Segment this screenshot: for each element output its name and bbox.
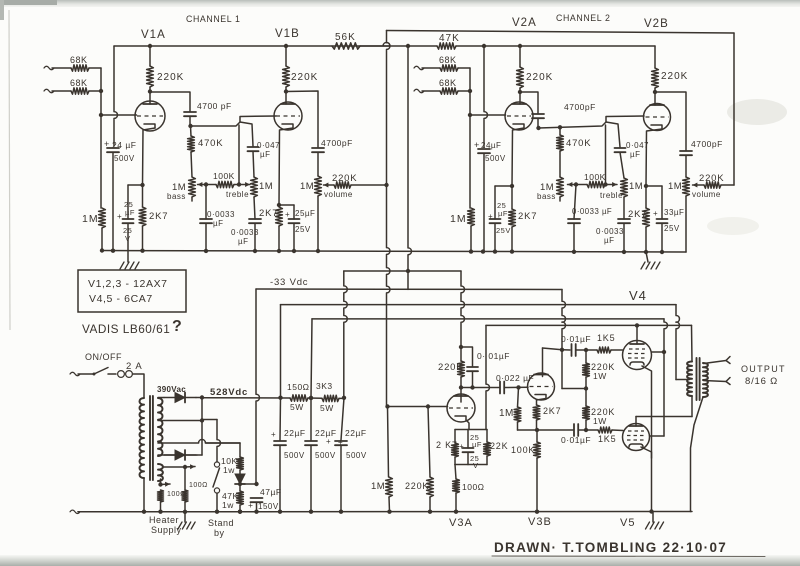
label 1M ch2 (450, 213, 467, 225)
wire bass pot stub (191, 197, 193, 201)
label 2K7 V2B (628, 209, 647, 220)
wire cap V5 to 1K5 (578, 429, 598, 431)
capacitor 22uF #1 (274, 441, 286, 445)
svg-text:5W: 5W (290, 402, 304, 412)
wire screen line down (663, 352, 665, 436)
wire HV tap3 lead (158, 440, 240, 443)
label V4 (629, 288, 647, 303)
transformer PT core (150, 396, 153, 480)
junction dot bus 25uF ch2 (493, 249, 497, 253)
svg-text:56K: 56K (335, 32, 356, 43)
svg-text:1M: 1M (82, 213, 99, 225)
wire junction to cap ch2 (574, 185, 576, 220)
wire right signal riser (733, 33, 735, 185)
label question mark (172, 318, 182, 335)
svg-text:22K: 22K (490, 441, 508, 451)
label 22uF 2 (315, 428, 337, 446)
wire filter branch ch2 (484, 46, 487, 147)
wire rail corner V2B (654, 46, 656, 68)
tube label V2B (644, 18, 669, 30)
resistor 220K (ch1 volume out) (334, 182, 351, 188)
capacitor 24uF (ch1 supply) (107, 148, 119, 152)
wire volume to bus (317, 196, 319, 251)
wire mixed signal line (387, 31, 390, 407)
label 2K7 (149, 211, 168, 222)
wire x311 to cap2 (310, 398, 312, 440)
svg-text:1W: 1W (593, 416, 607, 426)
junction dot main bus c3 (339, 510, 343, 514)
wire 220K V2B bottom (654, 88, 656, 92)
label 1M (82, 213, 99, 225)
wire cap to 1K5 V4 (576, 349, 597, 351)
wire V4 plate pin (636, 325, 638, 344)
svg-text:0·0033: 0·0033 (596, 227, 624, 236)
svg-text:22µF: 22µF (284, 428, 306, 438)
transformer PT heater winding (158, 464, 163, 481)
junction dot bus 1M (100, 248, 104, 252)
wire 220K V2A bottom (519, 88, 521, 92)
wire 2K7 V1B bus (278, 226, 280, 251)
heater arrow 2 (161, 482, 171, 487)
junction dot V5 cathode bus (649, 509, 653, 513)
output terminal tick 2 (726, 378, 730, 385)
label V3A (449, 517, 473, 529)
wire bias riser x256 (256, 289, 259, 484)
capacitor 22uF #2 (305, 441, 317, 445)
junction dot heater 2 (158, 482, 162, 486)
wire cap to node (189, 116, 191, 126)
tube table box (78, 270, 186, 312)
wire B+ rail ch1 (114, 43, 390, 46)
wire 470K to bass pot (191, 152, 192, 177)
svg-text:500V: 500V (315, 451, 336, 460)
junction dot main bus c2 (309, 510, 313, 514)
tube V4 (6CA7) (623, 341, 652, 370)
wire ground stub ch1 (127, 251, 129, 263)
wire PI 1M to bus (388, 497, 391, 512)
wire y443 corner to 10K (206, 443, 240, 457)
wire node to 470K (190, 126, 193, 136)
label 1M volume ch2 (668, 181, 721, 199)
junction dot V3A plate node (459, 345, 463, 349)
wire cap2 to bus psu (310, 445, 312, 512)
capacitor 0.047uF (ch2 treble) (615, 148, 626, 152)
wire 220K bottom (149, 87, 151, 92)
svg-text:25V: 25V (496, 226, 511, 235)
wire grid bus V2A vertical (469, 68, 471, 208)
svg-text:+: + (474, 140, 480, 150)
label 0.0033uF ch2 2 (596, 227, 624, 245)
wire 2K7 V2B bus (645, 227, 647, 252)
junction dot x408 y271 (406, 269, 410, 273)
wire grid stub V1A (101, 114, 137, 116)
wire divider line y430 (518, 429, 574, 431)
wire 47K top (239, 484, 241, 491)
wire cap2 to bus (254, 223, 256, 250)
wire B+ link y271 (344, 270, 461, 272)
svg-text:-33 Vdc: -33 Vdc (270, 277, 308, 288)
label 2K7 V3B (543, 406, 561, 416)
scan corner shadow top-left (0, 0, 57, 5)
tube V1B (12AX7 half) (274, 102, 302, 130)
svg-text:47µF: 47µF (260, 487, 282, 497)
resistor 68K (ch1 input 1) (71, 65, 89, 71)
wire 220K V3A bottom (460, 377, 462, 388)
wire cathode bracket V1A (128, 184, 143, 186)
wire x408 stub to -33V line (407, 271, 409, 289)
wire V2A plate pin (519, 92, 521, 104)
wire PI plate riser x461 (461, 271, 464, 347)
label 4700pF (197, 101, 232, 111)
label 100R h2 (189, 482, 208, 489)
wire 25uF V1B riser (293, 205, 295, 219)
wire node line ch2 (539, 122, 621, 147)
label 0.0033uF ch2 (572, 207, 612, 216)
wire V2B cathode tail (646, 129, 662, 186)
label 0.01uF V4 (561, 334, 591, 344)
wire V5 plate pin (635, 417, 637, 427)
svg-text:220K: 220K (526, 72, 553, 83)
junction dot bus 24uF (111, 249, 115, 253)
svg-text:500V: 500V (114, 154, 135, 163)
label 22K (490, 441, 508, 451)
wire B+ rail ch2 (456, 45, 655, 47)
capacitor 0.0033uF #2 (ch1) (249, 219, 261, 223)
wire junction to 0.0033 cap (205, 185, 207, 220)
junction dot 0.01 bottom (470, 385, 474, 389)
wire treble junction riser ch2 (605, 125, 607, 185)
svg-text:+: + (285, 210, 290, 219)
svg-text:+: + (459, 442, 464, 451)
label 1M treble (226, 181, 273, 199)
wire V2A cathode tail (512, 128, 524, 186)
ground symbol heater (178, 522, 195, 529)
wire HV bottom lead (158, 454, 197, 456)
resistor 56K (332, 43, 360, 49)
svg-text:100K: 100K (584, 172, 606, 182)
wiper arrow volume ch2 (693, 183, 705, 188)
label 56K (335, 32, 356, 43)
wire x562 down (561, 350, 563, 389)
svg-text:CHANNEL 1: CHANNEL 1 (186, 14, 240, 24)
junction dot rail x484 (482, 44, 486, 48)
resistor 100R humdinger 1 (158, 490, 164, 502)
junction dot main bus 220K (428, 510, 432, 514)
label 0.047uF ch2 (626, 141, 649, 159)
wire 2K7 V3A top (454, 430, 456, 444)
svg-text:500V: 500V (284, 451, 305, 460)
svg-text:2K7: 2K7 (149, 211, 168, 222)
capacitor 4700pF (V1B out) (312, 148, 324, 152)
capacitor 33uF (V2B cathode) (657, 219, 668, 223)
wire x280 to cap1 (279, 398, 282, 440)
wire ground stub ch2 (646, 252, 648, 262)
wire V5 cathode tail (641, 447, 652, 512)
resistor 470K (ch1) (188, 136, 195, 152)
svg-text:µF: µF (125, 208, 135, 217)
resistor 100R (V3A) (453, 479, 460, 493)
wire treble pot to cap2 (254, 197, 255, 219)
input jack 4 tick (414, 89, 424, 93)
svg-text:V5: V5 (620, 517, 635, 529)
svg-text:25V: 25V (295, 225, 311, 234)
resistor 220K (ch2 volume out) (704, 182, 721, 188)
wire plate line to cap (562, 349, 570, 351)
svg-text:+: + (117, 212, 122, 221)
wire V2A plate to coupling cap (520, 92, 538, 113)
svg-text:220K: 220K (291, 72, 318, 83)
transformer OPT primary winding (687, 362, 692, 397)
wire 25uF riser (127, 185, 129, 219)
svg-text:V2B: V2B (644, 18, 669, 30)
resistor 2K7 (V2A cathode) (509, 209, 516, 227)
wire 2K7 V3B down (536, 420, 538, 430)
wire OPT B+ line y305 (281, 304, 677, 306)
wire bass pot ch2 stub (559, 197, 561, 201)
svg-text:treble: treble (226, 190, 249, 199)
resistor 68K (ch1 input 2) (71, 88, 89, 94)
svg-text:4700pF: 4700pF (691, 139, 723, 149)
wire tap2 to standby riser (202, 419, 217, 421)
capacitor 4700pF (V2B out) (680, 151, 692, 155)
label CHANNEL 2 (556, 13, 610, 23)
svg-text:500V: 500V (485, 154, 506, 163)
svg-text:VADIS LB60/61: VADIS LB60/61 (82, 322, 170, 336)
label 220K (157, 72, 184, 83)
junction dot y430 100K (535, 428, 539, 432)
wire standby riser (217, 420, 220, 463)
label 470K (198, 138, 223, 149)
svg-text:V1A: V1A (141, 29, 166, 41)
svg-text:2K7: 2K7 (518, 211, 537, 222)
resistor 1K5 (V5 grid stopper) (598, 427, 612, 433)
svg-text:220K: 220K (661, 71, 688, 82)
wire 25uF V3A riser (467, 430, 469, 449)
wire between droppers (308, 397, 322, 399)
wire V1A plate pin (149, 92, 151, 105)
label 10K 1W (221, 456, 238, 475)
svg-text:1M: 1M (300, 181, 314, 192)
wiper arrow bass ch2 (568, 182, 577, 187)
svg-text:V: V (473, 461, 479, 470)
wire grid bus V1A vertical (100, 68, 102, 208)
wire 220K gridleak bus (429, 497, 431, 512)
label ON/OFF (85, 352, 122, 362)
resistor 47K 1W (237, 491, 244, 505)
wire coupling to V3B grid (504, 386, 528, 388)
wire V1B out (286, 91, 318, 147)
wire 22K top (486, 430, 488, 443)
resistor 220K 1W (V5 grid leak) (583, 406, 590, 420)
wire 0.01uF down (472, 371, 474, 387)
label 25V ch2 (496, 226, 511, 235)
resistor 2K7 (V3B cathode) (533, 405, 540, 420)
wiper arrow treble ch2 (606, 182, 618, 187)
resistor 1K5 (V4 grid stopper) (597, 347, 611, 353)
label 220K V2A (526, 72, 553, 83)
wire HV top lead (158, 397, 164, 399)
capacitor 0.01uF (V3A plate) (467, 367, 478, 371)
wire B+ riser x408 (408, 46, 411, 271)
wire V5 ground tail (652, 512, 654, 523)
resistor 100K (ch2) (587, 181, 605, 187)
svg-text:?: ? (172, 318, 182, 335)
svg-text:CHANNEL 2: CHANNEL 2 (556, 13, 610, 23)
capacitor 0.047uF (ch1 treble) (248, 147, 259, 151)
label 68K ch2b (439, 78, 457, 88)
label 470K ch2 (566, 138, 591, 149)
svg-text:µF: µF (238, 237, 249, 246)
svg-text:0·0033 µF: 0·0033 µF (572, 207, 612, 216)
svg-text:22µF: 22µF (345, 428, 367, 438)
capacitor 4700pF (V2A coupling) (532, 114, 544, 118)
scan smudge right (727, 99, 787, 125)
junction dot rail x408 (406, 44, 410, 48)
wire 2K7 top (142, 185, 144, 207)
label 47K 1W (222, 491, 239, 510)
label 3K3 (316, 381, 333, 391)
svg-text:by: by (214, 528, 225, 538)
junction dot V3A plate line (459, 385, 463, 389)
svg-text:4700 pF: 4700 pF (197, 101, 232, 111)
wire transformer primary bottom (143, 478, 145, 512)
wire D2 up (197, 454, 202, 456)
ground symbol output (646, 522, 664, 529)
junction dot standby bus (215, 510, 219, 514)
junction dot V2B plate (653, 90, 657, 94)
capacitor 24uF (ch2 supply) (478, 149, 490, 153)
transformer OPT secondary winding (703, 363, 708, 397)
wire V1B cathode tail (279, 128, 293, 205)
wire plate to coupling cap (150, 92, 190, 111)
wire rectifier vertical x202 (201, 398, 203, 456)
label VADIS LB60/61 (82, 322, 170, 336)
wire filter branch ch1 (114, 46, 117, 146)
junction dot tap2 (200, 418, 204, 422)
svg-text:25µF: 25µF (295, 209, 315, 218)
junction dot bus 2K7 (140, 249, 144, 253)
junction dot y430 220K (584, 428, 588, 432)
wire node line to treble cap (191, 122, 254, 146)
diode rectifier D2 (164, 450, 196, 460)
wire 220K V2A top (519, 46, 521, 67)
junction dot bias node (254, 482, 258, 486)
junction dot coupling node ch1 (188, 124, 192, 128)
svg-text:68K: 68K (70, 78, 88, 88)
wire 220K V1B bottom (285, 87, 287, 92)
svg-text:1M: 1M (450, 213, 467, 225)
junction dot main bus PT (142, 510, 146, 514)
label 2K7 ch2 (518, 211, 537, 222)
label 0.022uF (496, 373, 534, 383)
wire 220K V1B top (285, 46, 287, 66)
wire 100R V3A bus (455, 493, 457, 512)
svg-text:µF: µF (213, 219, 224, 228)
svg-text:4700pF: 4700pF (564, 102, 596, 112)
wire 100K to treble junction (234, 184, 239, 186)
svg-text:528Vdc: 528Vdc (210, 387, 248, 398)
capacitor 0.022uF (coupling) (500, 382, 504, 394)
wire hum2 to bus (184, 502, 186, 512)
svg-text:220K: 220K (157, 72, 184, 83)
svg-text:24 µF: 24 µF (112, 140, 136, 150)
svg-text:µF: µF (260, 150, 271, 159)
resistor 1M (PI divider) (514, 407, 521, 422)
junction dot bass/100K ch2 (574, 182, 578, 186)
label 25uF (117, 200, 135, 221)
label + 24uF (104, 139, 136, 150)
label 4700pF V2B (691, 139, 723, 149)
wire 68K1 to junction (89, 67, 101, 69)
label 150V (248, 500, 279, 511)
resistor 3K3 5W (322, 395, 339, 401)
junction dot V1B cathode (277, 203, 281, 207)
wire cap to volume ch2 (685, 155, 687, 177)
wire 470K ch2 to bass pot (559, 151, 561, 177)
output terminal tick 1 (726, 357, 730, 364)
wire V3A grid line (388, 406, 448, 408)
wire OPT secondary mid tap (704, 381, 727, 382)
wire screen stub V4 (652, 351, 665, 353)
resistor 2K7 (V2B cathode) (643, 208, 650, 227)
label 500V ch2 (485, 154, 506, 163)
label 220K V3A (438, 362, 463, 373)
label CHANNEL 1 (186, 14, 240, 24)
resistor 100K (PI divider) (534, 442, 541, 458)
switch on/off blade (93, 368, 109, 376)
wire standby to bus (216, 493, 218, 512)
junction dot treble ch1 (237, 182, 241, 186)
tube V3A (12AX7 half) (447, 394, 475, 422)
underline (492, 555, 765, 558)
junction dot main bus bias (238, 510, 242, 514)
svg-text:470K: 470K (566, 138, 591, 149)
svg-text:0·01µF: 0·01µF (561, 334, 591, 344)
junction dot bus volume (316, 249, 320, 253)
svg-text:ON/OFF: ON/OFF (85, 352, 122, 362)
junction dot heater 1 (183, 465, 187, 469)
label 1M bass (167, 182, 186, 201)
input jack 1 tick (44, 66, 54, 70)
label 47uF (260, 487, 282, 497)
svg-text:+: + (326, 437, 331, 446)
wire plate supply riser x562 (562, 290, 565, 350)
label 500V 2 (315, 451, 336, 460)
label 25V V2B (664, 224, 680, 233)
wire V5 plate to OPT primary bottom (636, 416, 692, 418)
resistor 10K 1W (237, 457, 244, 470)
label 0.01uF V5 (561, 435, 591, 445)
svg-text:1K5: 1K5 (598, 434, 616, 444)
svg-text:+: + (653, 209, 658, 218)
wire 47uF link (240, 483, 257, 485)
wire input1 (52, 67, 71, 69)
wire 10K to diode (239, 470, 241, 474)
svg-text:33µF: 33µF (664, 208, 684, 217)
junction dot plate V1A rail (148, 44, 152, 48)
label 220K 1W a (591, 362, 615, 381)
svg-text:V3A: V3A (449, 517, 473, 529)
wire HV tap2 lead (158, 420, 202, 422)
svg-text:390Vac: 390Vac (157, 385, 186, 394)
label 1M treble ch2 (600, 181, 643, 200)
tube table line 2 (89, 293, 153, 305)
wire 470K ch2 top (559, 127, 561, 135)
label 25uF ch2 (488, 201, 508, 221)
capacitor 4700pF (V1A coupling) (184, 112, 196, 116)
svg-text:0· 01µF: 0· 01µF (477, 351, 510, 361)
label 500V (114, 154, 135, 163)
